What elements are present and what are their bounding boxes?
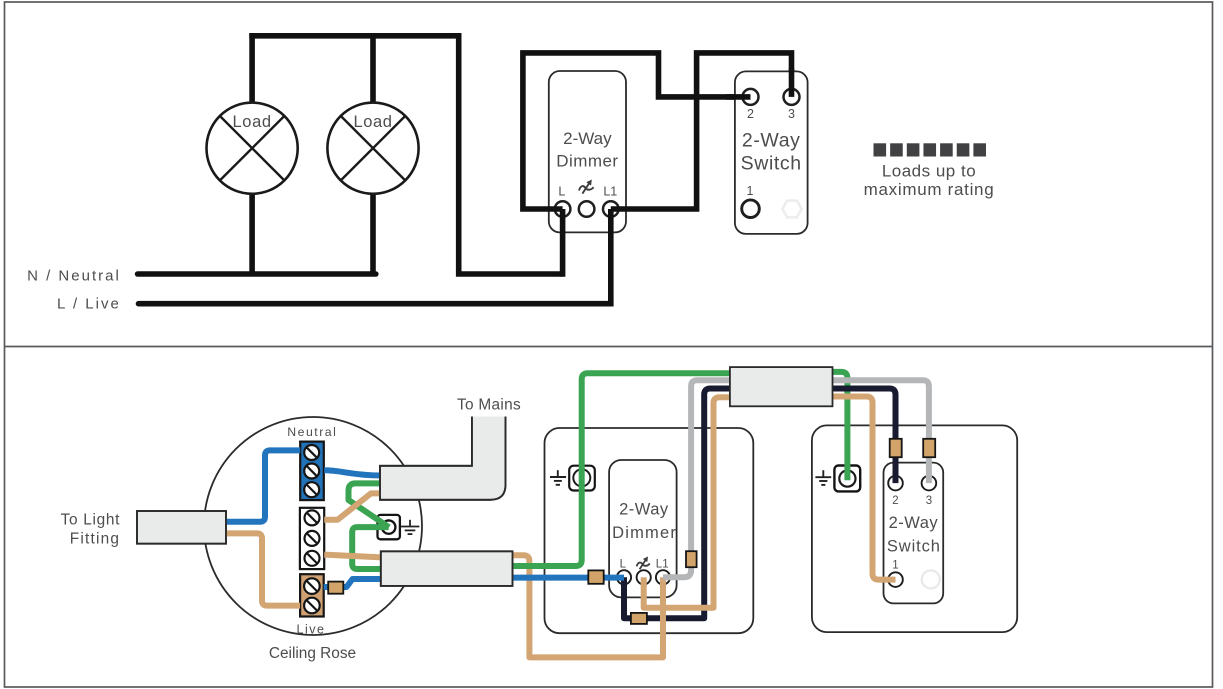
svg-text:Ceiling Rose: Ceiling Rose	[269, 645, 356, 662]
cable sheath to dimmer	[381, 551, 513, 586]
svg-text:Neutral: Neutral	[287, 425, 337, 439]
redraw wire ends into switch terminals 2 and 3	[743, 89, 800, 105]
svg-text:L1: L1	[603, 185, 617, 199]
wire: blue, live block to dimmer sheath	[324, 579, 382, 587]
connector on black strapper below dimmer	[631, 613, 647, 624]
wire: black strapper, dimmer L down, right, up to junction box	[624, 389, 736, 619]
wire: riser from N bridge up to dimmer L	[560, 209, 566, 277]
connector on grey wire above switch terminal 3	[923, 439, 935, 457]
switch terminal white fills (bottom)	[888, 476, 936, 587]
wire: dimmer L1 loop over top to switch terminal 3	[611, 53, 792, 209]
svg-text:L: L	[620, 558, 627, 570]
wire: lamp1 bottom drop	[249, 194, 255, 275]
ceiling rose circle	[204, 417, 422, 635]
svg-text:Live: Live	[297, 623, 326, 637]
wire: N / Neutral rail	[138, 271, 376, 277]
faint hexagon knob	[782, 201, 801, 218]
svg-text:Switch: Switch	[887, 537, 941, 555]
2-Way Switch box (top panel)	[735, 71, 808, 234]
svg-text:3: 3	[788, 107, 795, 121]
wire: grey strapper, dimmer L1 right and up to junction box	[663, 380, 736, 577]
wire: brown loop, sheath down and up to dimmer L1 terminal	[512, 555, 664, 657]
live terminal block	[300, 574, 324, 616]
mains cable	[380, 417, 506, 500]
wire: dimmer L loop over top to switch terminal 2	[523, 53, 751, 209]
left wall box (dimmer)	[545, 428, 754, 633]
svg-text:L1: L1	[656, 558, 669, 570]
wire: green, sheath up to junction box (passes dimmer earth terminal)	[512, 373, 737, 566]
svg-text:L: L	[558, 185, 565, 199]
svg-text:To Light: To Light	[61, 512, 121, 529]
svg-text:Load: Load	[353, 113, 392, 131]
junction box (over wires)	[730, 367, 833, 406]
svg-text:Fitting: Fitting	[70, 531, 120, 548]
svg-text:2-Way: 2-Way	[619, 500, 669, 518]
wire: brown, junction box to switch terminal 1	[827, 397, 896, 580]
middle terminal block	[300, 508, 324, 569]
wire: lamp1 top drop	[249, 33, 255, 104]
earth symbol (right wall box)	[815, 470, 831, 485]
earth terminal square (ceiling rose)	[378, 515, 400, 539]
wire: blue, neutral block to mains cable	[324, 470, 381, 475]
legend: loads rating squares	[874, 143, 987, 156]
faint circle knob (bottom switch)	[922, 570, 940, 588]
svg-text:1: 1	[892, 560, 898, 572]
wire: black, junction box to switch terminal 2	[827, 389, 896, 484]
to-light-fitting cable	[137, 511, 226, 544]
svg-text:Load: Load	[233, 113, 272, 131]
svg-text:Dimmer: Dimmer	[556, 152, 618, 171]
wire: riser from Live rail up to dimmer L1	[608, 209, 614, 307]
wire: L / Live rail up to dimmer L1	[139, 301, 611, 307]
panel divider line	[5, 346, 1213, 348]
svg-text:maximum rating: maximum rating	[864, 180, 995, 199]
wire: green earth, mains cable to rose earth terminal	[349, 483, 390, 527]
lamp Load 2	[327, 103, 418, 194]
2-Way Dimmer box (top panel)	[549, 71, 626, 232]
earth symbol (ceiling rose)	[401, 520, 420, 534]
svg-text:Switch: Switch	[741, 153, 802, 175]
wire: load top rail to dimmer L via N bridge	[249, 36, 562, 274]
switch inner box	[884, 463, 944, 604]
dimmer icon (top panel)	[579, 180, 594, 193]
wire: grey, junction box to switch terminal 3	[827, 380, 929, 483]
wire: green earth, rose earth terminal to dimmer sheath	[352, 527, 389, 569]
connector on blue wire at live block	[328, 582, 343, 594]
svg-text:L / Live: L / Live	[57, 296, 121, 313]
svg-text:2: 2	[892, 495, 898, 507]
wire: brown, light cable to live block	[226, 533, 300, 605]
connector on grey wire above dimmer L1	[686, 551, 697, 567]
svg-text:2-Way: 2-Way	[563, 129, 612, 148]
dimmer icon (bottom panel)	[637, 557, 650, 569]
wire: lamp2 bottom drop	[370, 194, 376, 275]
redraw cable sheath borders over wire ends	[381, 551, 513, 586]
wire connector blocks (tan)	[328, 439, 935, 624]
svg-text:2-Way: 2-Way	[742, 129, 801, 151]
svg-text:3: 3	[926, 495, 932, 507]
neutral terminal block	[300, 442, 324, 501]
wire: brown, middle block to dimmer sheath	[324, 555, 381, 558]
connector on black wire above switch terminal 2	[890, 439, 902, 457]
wire: brown strapper, dimmer middle terminal down, right, up to junction box	[644, 397, 736, 608]
wire: blue, light cable to neutral block	[226, 450, 300, 521]
switch terminal 1	[742, 200, 760, 218]
connector on blue wire before dimmer L	[588, 570, 603, 583]
svg-text:Loads up to: Loads up to	[882, 162, 976, 181]
right wall box (switch)	[812, 425, 1017, 632]
svg-text:To Mains: To Mains	[457, 397, 521, 414]
svg-text:N / Neutral: N / Neutral	[27, 267, 121, 284]
svg-text:Dimmer: Dimmer	[612, 524, 677, 542]
lamp Load 1	[207, 103, 298, 194]
wire: blue, sheath to dimmer L terminal	[512, 575, 625, 581]
svg-text:1: 1	[747, 184, 754, 198]
dimmer terminal white fills	[555, 201, 619, 217]
earth terminal square (right wall box)	[834, 466, 860, 492]
wire: lamp2 top drop	[370, 33, 376, 104]
wire: brown, mains cable to middle block	[324, 493, 381, 519]
earth symbol (left wall box)	[550, 470, 566, 485]
wire: green, junction box to switch earth terminal	[827, 372, 847, 480]
dimmer inner box	[609, 460, 677, 597]
earth terminal square (left wall box)	[569, 466, 595, 491]
svg-text:2-Way: 2-Way	[889, 514, 939, 532]
svg-text:2: 2	[747, 107, 754, 121]
dimmer terminal white fills (bottom)	[617, 570, 670, 584]
